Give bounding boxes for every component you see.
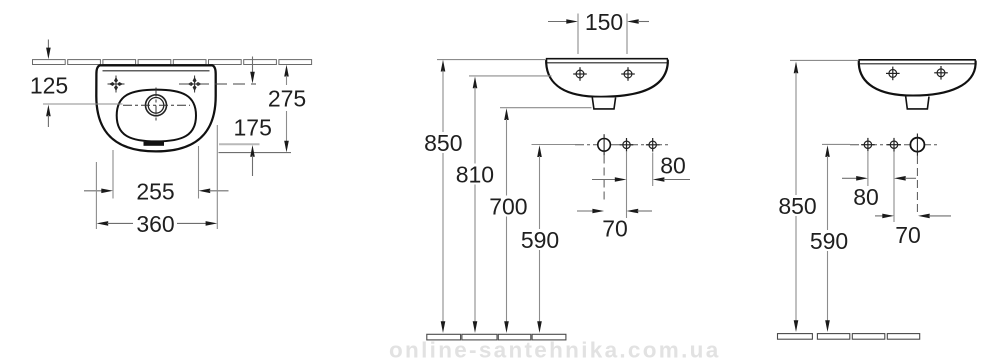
svg-text:810: 810 — [456, 162, 494, 188]
wall tile band (top view) — [33, 60, 312, 65]
extension line basin bottom (for 275) — [219, 152, 292, 154]
dimension 125: tick line at tap axis — [43, 103, 123, 105]
supply circle middle (front view) — [620, 138, 634, 152]
extension line left (255) — [112, 150, 114, 199]
dimension 125: upper arrow at wall — [46, 40, 51, 60]
dimension 70 (front view): right arrow — [627, 209, 653, 214]
floor tile band (side view) — [778, 334, 920, 340]
overflow slot (top view) — [144, 142, 165, 146]
dimension 850 (side view): line with arrows — [794, 62, 799, 333]
dimension 150: right arrow — [627, 19, 649, 24]
dimension 70 (side view): left arrow — [875, 214, 894, 219]
dimension 255: left arrow — [84, 189, 113, 194]
extension line tap holes (for 810) — [469, 75, 552, 77]
dimension 700 (front view): line with arrows — [504, 108, 509, 333]
svg-text:850: 850 — [424, 130, 462, 156]
extension line right (255) — [198, 146, 200, 199]
extension line supply axis (for 590) — [532, 144, 576, 146]
dimension 850 (front view): line with arrows — [441, 60, 446, 333]
svg-text:850: 850 — [778, 193, 816, 219]
dimension 360: left arrow — [97, 221, 134, 226]
drain pipe circle (front view) — [598, 139, 611, 152]
dimension 70 (side view): right arrow — [918, 214, 951, 219]
supply/drain axis dashed centreline (side view) — [850, 144, 937, 146]
svg-text:700: 700 — [489, 193, 527, 219]
supply circle left (side view) — [861, 138, 875, 152]
tap hole vertical centreline — [155, 88, 157, 124]
extension line drain bottom (for 700) — [500, 107, 592, 109]
svg-text:360: 360 — [136, 211, 174, 237]
dashed line below drain circle — [603, 156, 605, 204]
dimension 360: right arrow — [177, 221, 217, 226]
extension line rim top (for 850, side view) — [790, 59, 859, 61]
supply/drain axis dashed centreline (front view) — [575, 144, 668, 146]
extension line below middle supply circle (side view) — [893, 152, 895, 223]
basin rim front edge line (top view) — [103, 70, 210, 72]
drain pipe circle cross ticks (side view) — [916, 134, 918, 156]
dimension 80 (side view): right arrow — [894, 176, 916, 181]
tap hole horizontal centreline — [123, 104, 190, 106]
dimension 175: upper arrow — [250, 57, 255, 84]
svg-text:590: 590 — [810, 228, 848, 254]
extension line below middle supply circle — [626, 152, 628, 218]
svg-text:80: 80 — [853, 184, 879, 210]
basin rim (front view) — [546, 59, 668, 63]
extension line below right supply circle — [652, 153, 654, 187]
dimension 590 (front view): line with arrows — [537, 145, 542, 333]
svg-text:125: 125 — [30, 73, 68, 99]
extension line below left supply circle (side view) — [867, 152, 869, 186]
svg-text:80: 80 — [660, 153, 686, 179]
dimension 590 (side view): line with arrows — [825, 145, 830, 332]
dimension 275: line and arrows — [284, 65, 289, 153]
drain outlet trapezoid (side view) — [906, 97, 929, 109]
extension line left (360) — [95, 162, 97, 229]
dimension 255: right arrow — [199, 189, 229, 194]
extension line supply axis (for 590, side view) — [822, 143, 850, 145]
tap hole inner circle (top view) — [148, 98, 164, 114]
svg-text:255: 255 — [136, 178, 174, 204]
svg-text:70: 70 — [895, 222, 921, 248]
tap hole mark left (front view) — [573, 67, 587, 81]
tap hole outer circle (top view) — [146, 95, 167, 116]
extension line right (150) — [626, 14, 628, 55]
dashed axis through right star — [179, 83, 256, 85]
supply circle right (front view) — [646, 138, 660, 152]
svg-text:590: 590 — [521, 227, 559, 253]
basin bowl underside (side view) — [859, 61, 976, 96]
svg-text:275: 275 — [268, 85, 306, 111]
svg-text:70: 70 — [602, 216, 628, 242]
tap hole mark left (side view) — [886, 67, 900, 81]
tap hole mark right (side view) — [934, 66, 948, 80]
basin outer outline (top view) — [96, 65, 215, 151]
extension line right (360) — [216, 125, 218, 229]
drain outlet trapezoid (front view) — [592, 98, 615, 109]
dimension 80 (front view): left arrow — [592, 177, 627, 182]
drain pipe circle (side view) — [910, 138, 924, 152]
dimension 810 (front view): line with arrows — [473, 77, 478, 334]
extension line left (150) — [577, 14, 579, 55]
drain pipe circle cross ticks — [603, 134, 605, 155]
svg-text:150: 150 — [585, 9, 623, 35]
basin rim (side view) — [858, 60, 976, 64]
extension line bowl bottom (for 175) — [219, 143, 260, 145]
optional tap hole star left (top view) — [108, 76, 125, 93]
tap hole mark right (front view) — [621, 67, 635, 81]
basin bowl underside (front view) — [546, 60, 668, 97]
dashed line below drain circle (side view) — [916, 156, 918, 212]
dimension 80 (side view): left arrow — [842, 176, 868, 181]
extension line rim top (for 850) — [437, 59, 546, 61]
dimension 150: left arrow — [548, 19, 578, 24]
inner bowl oval (top view) — [117, 90, 196, 142]
optional tap hole star right (top view) — [186, 76, 203, 93]
floor tile band (front view) — [427, 334, 566, 340]
dimension 175: lower arrow — [250, 145, 255, 176]
dimension 80 (front view): right arrow — [653, 177, 690, 182]
dimension 125: lower arrow — [46, 105, 51, 127]
dimension 70 (front view): left arrow — [577, 209, 604, 214]
svg-text:175: 175 — [234, 114, 272, 140]
svg-text:online-santehnika.com.ua: online-santehnika.com.ua — [389, 338, 721, 363]
supply circle middle (side view) — [887, 138, 901, 152]
